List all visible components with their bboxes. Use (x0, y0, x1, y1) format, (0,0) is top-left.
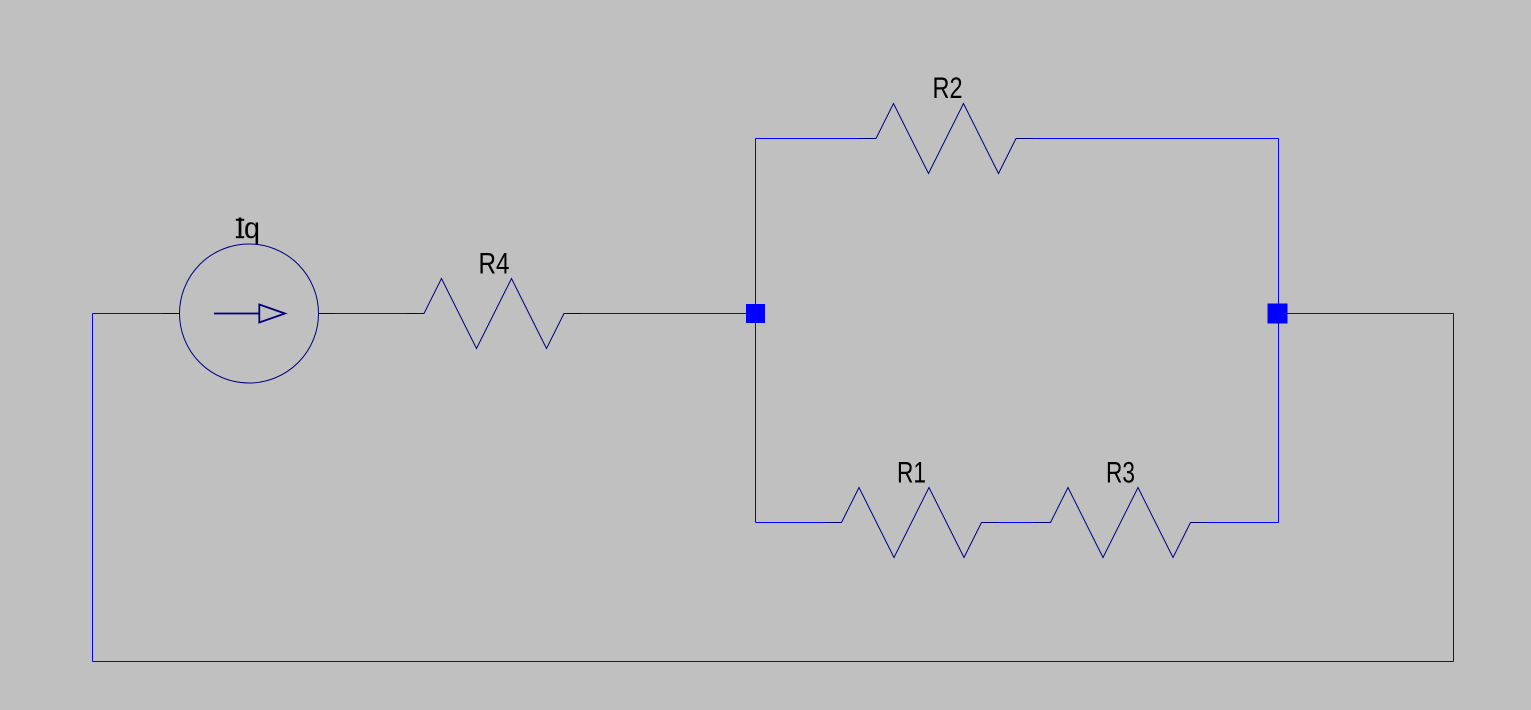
resistor R3 (1034, 488, 1208, 558)
svg-text:R3: R3 (1106, 457, 1135, 490)
svg-text:R2: R2 (933, 72, 963, 105)
wire: top branch left segment to R2 (756, 138, 861, 140)
wire: top branch right segment from R2 (1032, 138, 1279, 140)
wire: current source right pin to R4 (334, 313, 408, 315)
resistor R2 (859, 104, 1033, 174)
current source Iq: right pin stub (318, 313, 335, 315)
label Iq: serif bars on I (236, 219, 244, 221)
wire: node A vertical (top branch to bottom branch) (755, 139, 757, 523)
svg-text:R1: R1 (897, 457, 926, 490)
wire: inner right vertical through node B (1278, 139, 1280, 523)
wire: R4 to node A (580, 313, 756, 315)
wire: stub from outer loop to current source left pin (93, 313, 165, 315)
current source Iq: left pin stub (163, 313, 180, 315)
current source Iq: circle (180, 244, 319, 383)
resistor R4 (407, 279, 581, 349)
svg-text:Iq: Iq (236, 212, 260, 245)
wire: R3 to inner right vertical (1207, 522, 1279, 524)
node A: junction square left (746, 304, 765, 323)
current source Iq: arrow head triangle (259, 305, 285, 323)
node B: junction square right (1268, 304, 1288, 324)
svg-text:R4: R4 (479, 248, 510, 281)
wire: bottom branch left segment to R1 (756, 522, 826, 524)
wire: right horizontal into node B (1287, 313, 1454, 315)
wire: left outer vertical (92, 314, 94, 662)
current source Iq: arrow shaft (214, 313, 259, 315)
resistor R1 (825, 488, 999, 558)
wire: right outer vertical (1453, 314, 1455, 662)
wire: bottom outer horizontal (93, 661, 1454, 663)
wire: between R1 and R3 (998, 522, 1035, 524)
